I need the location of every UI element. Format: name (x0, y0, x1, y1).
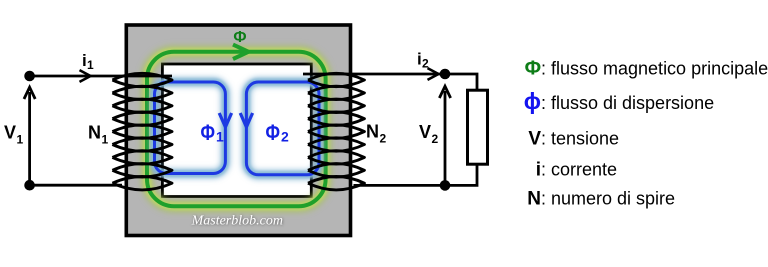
svg-text:ϕ: ϕ (524, 88, 541, 114)
svg-text:N: N (88, 123, 101, 143)
svg-text:1: 1 (102, 133, 109, 147)
svg-text:2: 2 (380, 132, 387, 146)
svg-text:: tensione: : tensione (541, 129, 619, 149)
svg-text:: flusso di dispersione: : flusso di dispersione (541, 93, 714, 113)
svg-text:: corrente: : corrente (541, 160, 617, 180)
svg-text:V: V (419, 122, 431, 142)
svg-text:1: 1 (17, 132, 24, 146)
svg-text:2: 2 (422, 57, 429, 71)
svg-text:: flusso magnetico principale: : flusso magnetico principale (541, 59, 768, 79)
svg-text:V: V (528, 129, 541, 150)
svg-text:Φ: Φ (233, 29, 246, 46)
svg-text:N: N (366, 122, 379, 142)
svg-text:1: 1 (216, 129, 224, 145)
svg-text:: numero di spire: : numero di spire (541, 189, 675, 209)
svg-text:1: 1 (87, 58, 94, 72)
svg-text:2: 2 (281, 129, 289, 145)
svg-text:Φ: Φ (266, 121, 280, 145)
svg-text:Φ: Φ (201, 121, 215, 145)
svg-text:V: V (4, 122, 16, 142)
svg-text:Φ: Φ (525, 58, 541, 80)
svg-text:Masterblob.com: Masterblob.com (191, 214, 283, 229)
svg-text:2: 2 (432, 132, 439, 146)
svg-text:N: N (527, 189, 541, 210)
